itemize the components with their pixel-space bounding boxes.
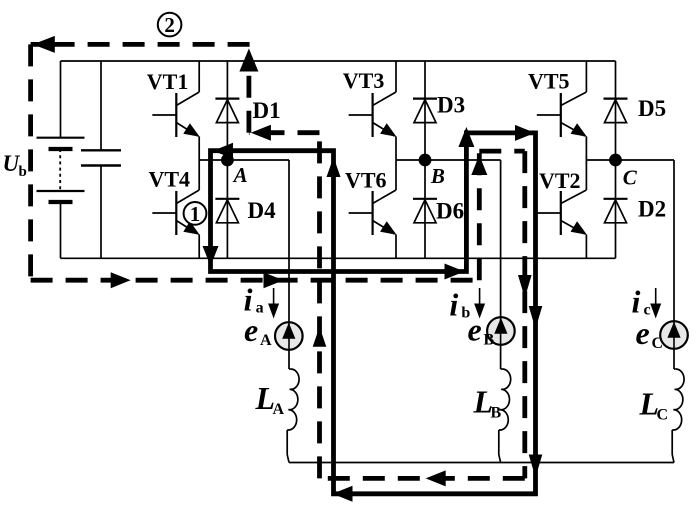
label LA <box>255 380 285 418</box>
wire phase node A <box>199 159 289 161</box>
emf source eC <box>660 160 688 369</box>
current path 1 (solid loop) <box>211 133 536 494</box>
label D6 <box>436 199 464 224</box>
label VT3 <box>343 68 385 93</box>
label path 1 (circled 1) <box>184 202 207 226</box>
node C <box>609 154 622 167</box>
svg-text:D5: D5 <box>638 96 666 121</box>
node B <box>419 154 432 167</box>
svg-text:B: B <box>430 164 445 188</box>
wire bottom DC rail <box>61 257 616 259</box>
inductor LB <box>499 369 511 463</box>
wire diode branch D1/D4 <box>226 61 228 258</box>
label eC <box>636 315 664 352</box>
diode D2 <box>604 199 628 223</box>
arrow path1 right on upper horizontal <box>515 125 535 141</box>
arrow path2 down mid right leg <box>518 275 532 298</box>
svg-text:D4: D4 <box>248 198 277 223</box>
transistor VT1 <box>152 61 199 160</box>
arrow path2 left toward D1 <box>251 125 271 141</box>
label node B <box>430 164 445 188</box>
wire load bottom rail <box>289 462 674 464</box>
wire phase node B <box>396 159 501 161</box>
current arrow ib <box>474 288 485 319</box>
diode D3 <box>413 99 437 123</box>
label LC <box>639 386 669 424</box>
label D4 <box>248 198 277 223</box>
svg-text:2: 2 <box>164 13 175 37</box>
label LB <box>473 384 502 422</box>
current path 2 (dashed loop) <box>31 44 525 478</box>
label VT1 <box>147 69 189 94</box>
svg-text:A: A <box>273 401 285 418</box>
arrow path1 right on lower horizontal <box>445 264 465 280</box>
svg-text:1: 1 <box>190 202 201 226</box>
wire diode branch D3/D6 <box>424 61 426 258</box>
label ib <box>449 287 470 323</box>
label D5 <box>638 96 666 121</box>
arrow path2 up mid left leg <box>313 327 327 347</box>
svg-text:VT2: VT2 <box>539 168 581 193</box>
arrow path1 up at node B leg <box>458 127 474 147</box>
label D2 <box>638 197 666 222</box>
diode D5 <box>604 99 628 123</box>
svg-text:e: e <box>468 312 482 348</box>
diode D1 <box>215 99 239 123</box>
svg-text:C: C <box>657 407 669 424</box>
arrow path1 left on bottom <box>333 486 353 502</box>
arrow path2 left on top <box>33 36 55 53</box>
capacitor C (DC link) <box>81 61 121 258</box>
arrow path1 down at VT4 leg <box>203 246 219 266</box>
arrow path2 up at node B leg <box>471 155 487 175</box>
svg-text:VT1: VT1 <box>147 69 189 94</box>
arrow path1 up mid left leg <box>327 157 341 177</box>
svg-text:A: A <box>232 163 248 187</box>
inductor LA <box>287 369 299 463</box>
arrow path1 left on top horizontal <box>213 143 233 159</box>
diode D4 <box>215 199 239 223</box>
node A <box>221 154 234 167</box>
svg-text:C: C <box>652 335 664 352</box>
label eB <box>468 312 495 349</box>
svg-text:i: i <box>449 287 458 323</box>
battery Ub <box>37 61 85 258</box>
transistor VT6 <box>349 160 397 258</box>
label ic <box>632 284 651 320</box>
transistor VT5 <box>537 61 587 160</box>
svg-text:D1: D1 <box>253 98 281 123</box>
current arrow ic <box>650 288 661 319</box>
svg-text:VT3: VT3 <box>343 68 385 93</box>
label node A <box>232 163 248 187</box>
svg-text:e: e <box>244 312 258 348</box>
svg-text:D3: D3 <box>437 93 465 118</box>
svg-text:e: e <box>636 315 650 351</box>
label VT5 <box>528 69 570 94</box>
label path 2 (circled 2) <box>158 13 182 37</box>
arrow path2 right on mid horizontal 1 <box>111 272 131 288</box>
svg-text:VT4: VT4 <box>149 167 191 192</box>
inductor LC <box>672 369 684 463</box>
label VT2 <box>539 168 581 193</box>
arrow path2 right on mid horizontal 2 <box>264 272 284 288</box>
emf source eA <box>275 160 303 369</box>
arrow path1 down bottom right leg <box>529 455 543 478</box>
arrow path2 up through top bus (D1 leg) <box>239 49 258 72</box>
label Ub <box>3 151 27 180</box>
transistor VT4 <box>152 160 199 258</box>
diode D6 <box>413 199 437 223</box>
svg-text:B: B <box>484 332 495 349</box>
label VT4 <box>149 167 191 192</box>
svg-text:VT6: VT6 <box>345 167 387 192</box>
wire top DC bus <box>61 60 616 62</box>
svg-text:VT5: VT5 <box>528 69 570 94</box>
label node C <box>623 166 638 190</box>
label D3 <box>437 93 465 118</box>
label D1 <box>253 98 281 123</box>
wire phase node C <box>586 159 674 161</box>
transistor VT3 <box>349 61 397 160</box>
label ia <box>244 282 264 318</box>
svg-text:C: C <box>623 166 638 190</box>
svg-text:b: b <box>19 164 27 180</box>
svg-text:D6: D6 <box>436 199 464 224</box>
current arrow ia <box>268 288 279 319</box>
transistor VT2 <box>537 160 587 258</box>
svg-text:B: B <box>491 405 502 422</box>
wire diode branch D5/D2 <box>615 61 617 258</box>
label eA <box>244 312 272 349</box>
arrow path2 left on bottom <box>426 470 446 486</box>
label VT6 <box>345 167 387 192</box>
arrow path1 down mid right leg <box>529 306 543 329</box>
svg-text:A: A <box>260 332 272 349</box>
emf source eB <box>487 160 515 369</box>
svg-text:D2: D2 <box>638 197 666 222</box>
